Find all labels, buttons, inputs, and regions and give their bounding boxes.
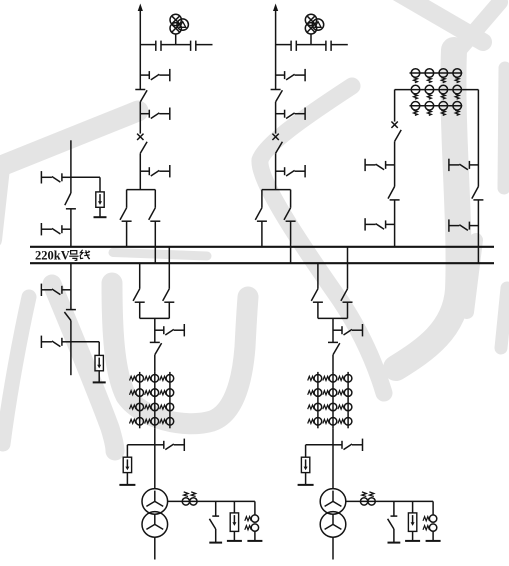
bus-II disconnector L1: [149, 208, 161, 221]
earth switch tie-a: [365, 159, 395, 171]
arrester unit row2-1: [411, 85, 420, 99]
wire PT-bay lower seg2: [70, 321, 72, 376]
disconnector L1-1 (in line): [135, 90, 147, 102]
wire arrester T1 drop: [126, 445, 128, 457]
earth switch tie-b: [365, 218, 395, 230]
PT T1 LV (2 windings): [245, 501, 263, 541]
arrester unit row3-1: [411, 102, 420, 116]
wire T2 arm-I upper: [347, 247, 349, 289]
voltage transformer PT1 (3-winding): [170, 14, 188, 44]
wire L2 seg2: [275, 102, 277, 134]
busbar I (220kV bus 1): [30, 246, 494, 248]
disconnector tie-3: [472, 187, 484, 200]
wire L1 arm-I lower: [126, 221, 128, 247]
capacitor C2b (coupling): [326, 41, 331, 51]
wire tie left to bus I: [394, 200, 396, 247]
wire PT-bay to bus I: [70, 209, 72, 247]
circuit breaker L1 (X): [137, 134, 143, 140]
surge arrester F2: [93, 355, 106, 382]
wire T2 arrester branch: [306, 444, 333, 446]
svg-text:220kV: 220kV: [35, 248, 70, 262]
earthing switch T2 LV: [388, 501, 401, 542]
earth switch L2-a: [276, 69, 306, 81]
wire T2 LV arrester stub: [412, 501, 414, 513]
wire tie left seg2: [394, 141, 396, 186]
wire T1 LV arrester stub: [233, 501, 235, 513]
wire CVT mid L1: [161, 44, 190, 46]
earth switch L1-a: [140, 69, 170, 81]
wire L1 arm-II lower: [154, 221, 156, 263]
line L2 arrow (outgoing line): [273, 4, 278, 12]
wire CVT tap L2: [276, 44, 291, 46]
wire T1 main seg2: [154, 355, 156, 372]
wire T2 merge header: [318, 317, 348, 319]
earth switch T1-a: [155, 324, 185, 336]
wire tie top row: [410, 72, 463, 74]
arrester unit row1-2: [425, 69, 434, 83]
bus-I disconnector L2: [255, 208, 267, 221]
CT T2-1: [360, 492, 367, 505]
wire L1 split header: [127, 189, 156, 191]
wire T2 main seg2: [332, 355, 334, 372]
arrester bank T1 column 3: [160, 372, 174, 428]
wire tie middle row: [395, 89, 479, 91]
line L1 arrow (outgoing line): [138, 4, 143, 12]
surge arrester T2 LV: [405, 513, 420, 541]
wire PT-bay arrester branch bottom: [71, 341, 99, 343]
disconnector PT-bay-2 blade: [64, 312, 71, 321]
capacitor C1a (coupling): [156, 41, 161, 51]
wire T1 arrester branch: [127, 444, 154, 446]
wire line L1 upper: [139, 7, 141, 90]
circuit breaker L2 (X): [272, 134, 278, 140]
wire T2 LV feeder: [345, 500, 433, 502]
earth switch L2-c: [276, 165, 306, 177]
wire T2 arm-II upper: [317, 263, 319, 289]
arrester unit row3-3: [439, 102, 448, 116]
earth switch tie-c: [449, 159, 479, 171]
CT T1-2: [190, 492, 197, 505]
wire L2 arm-I lower: [261, 221, 263, 247]
wire L2 arm-I upper: [261, 190, 263, 208]
bus-I disconnector L1: [120, 208, 132, 221]
bus-I disconnector T1: [163, 289, 175, 302]
disconnector tie-1 blade: [395, 130, 402, 142]
wire arrester F1 drop: [99, 177, 101, 192]
earthing switch T1 LV: [209, 501, 222, 542]
arrester unit row1-4: [453, 69, 462, 83]
wire T1 arm-I upper: [168, 247, 170, 289]
bus label glyph 号: [69, 251, 78, 261]
bus-I disconnector T2: [341, 289, 353, 302]
wire PT-bay lower seg1: [70, 263, 72, 309]
bus label glyph 线: [80, 250, 90, 259]
surge arrester F1: [94, 192, 107, 217]
transformer T2 (two-winding): [320, 489, 346, 538]
arrester bank T2 column 1: [308, 372, 322, 428]
busbar II (220kV bus 2): [30, 262, 494, 264]
disconnector L1-2 blade: [140, 142, 147, 154]
bus-II disconnector T1: [133, 289, 145, 302]
wire line L2 upper: [275, 7, 277, 90]
wire CVT end L1: [196, 44, 213, 46]
capacitor C1b (coupling): [191, 41, 196, 51]
wire T2 main seg1: [332, 318, 334, 342]
wire T1 arm-I lower: [168, 302, 170, 318]
wire L2 split header: [262, 189, 291, 191]
disconnector L2-2 blade: [276, 142, 283, 154]
disconnector PT-bay-1 blade: [65, 193, 71, 205]
earth switch PT-bay-c: [41, 284, 71, 296]
wire L1 arm-II upper: [154, 190, 156, 208]
PT T2 LV (2 windings): [423, 501, 441, 541]
earth switch L2-b: [276, 108, 306, 120]
wire arrester F2 drop: [98, 342, 100, 356]
arrester bank T1 column 1: [130, 372, 144, 428]
wire T2 arm-I lower: [347, 302, 349, 318]
arrester unit row1-1: [411, 69, 420, 83]
wire tie left drop upper: [394, 90, 396, 122]
wire CVT tap L1: [140, 44, 155, 46]
wire T1 merge header: [140, 317, 170, 319]
wire L2 arm-II upper: [290, 190, 292, 208]
earth switch PT-bay-a: [41, 171, 71, 183]
wire T1 main seg1: [154, 318, 156, 342]
surge arrester T1 LV: [227, 513, 242, 541]
wire T2 main seg3: [332, 428, 334, 489]
disconnector tie-2: [388, 187, 400, 200]
wire tie right drop: [477, 90, 479, 187]
wire T1 LV feeder: [167, 500, 255, 502]
wire L2 seg3: [275, 153, 277, 189]
earth switch L1-b: [140, 108, 170, 120]
wire tie right to bus II: [477, 200, 479, 263]
wire arrester T2 drop: [305, 445, 307, 457]
arrester bank T1 column 2: [145, 372, 159, 428]
wire L1 arm-I upper: [126, 190, 128, 208]
disconnector T2-1: [328, 342, 340, 354]
earth switch T1-b: [155, 439, 185, 451]
wire T1 arm-II upper: [139, 263, 141, 289]
arrester bank T2 column 2: [323, 372, 337, 428]
voltage transformer PT2 (3-winding): [305, 14, 323, 44]
earth switch T2-b: [333, 439, 363, 451]
disconnector T1-1: [150, 342, 162, 354]
arrester unit row3-4: [453, 102, 462, 116]
arrester unit row3-2: [425, 102, 434, 116]
bus-II disconnector T2: [311, 289, 323, 302]
wire L1 seg2: [139, 102, 141, 134]
wire CVT end L2: [331, 44, 348, 46]
disconnector PT-bay-1 tick: [66, 208, 76, 210]
arrester unit row1-3: [439, 69, 448, 83]
wire L1 seg3: [139, 153, 141, 189]
wire PT-bay upper: [70, 140, 72, 193]
circuit breaker tie (X): [391, 122, 397, 128]
arrester bank T2 column 3: [338, 372, 352, 428]
earth switch PT-bay-d: [41, 336, 71, 348]
earth switch PT-bay-b: [41, 223, 71, 235]
CT T2-2: [368, 492, 375, 505]
bus-II disconnector L2: [284, 208, 296, 221]
wire tie bottom row: [410, 105, 463, 107]
capacitor C2a (coupling): [291, 41, 296, 51]
wire T2 LV tail: [332, 537, 334, 559]
arrester unit row2-3: [439, 85, 448, 99]
wire CVT mid L2: [297, 44, 326, 46]
wire L2 arm-II lower: [290, 221, 292, 263]
arrester unit row2-2: [425, 85, 434, 99]
wire T1 LV tail: [154, 537, 156, 559]
transformer T1 (two-winding): [142, 489, 168, 538]
wire T1 arm-II lower: [139, 302, 141, 318]
arrester unit row2-4: [453, 85, 462, 99]
wire T1 main seg3: [154, 428, 156, 489]
surge arrester T1: [119, 457, 135, 485]
CT T1-1: [182, 492, 189, 505]
disconnector PT-bay-2 tick: [66, 309, 76, 311]
surge arrester T2: [298, 457, 314, 485]
earth switch tie-d: [449, 219, 479, 231]
disconnector L2-1 (in line): [271, 90, 283, 102]
wire T2 arm-II lower: [317, 302, 319, 318]
wire PT-bay arrester branch top: [71, 176, 100, 178]
earth switch L1-c: [140, 165, 170, 177]
earth switch T2-a: [333, 324, 363, 336]
